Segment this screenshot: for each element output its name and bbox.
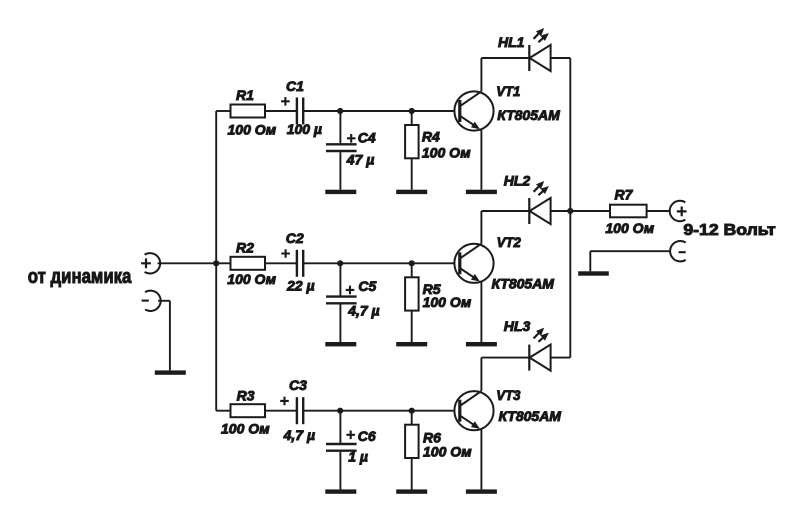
transistor VT2 КТ805АМ (NPN) [454, 234, 554, 291]
capacitor C6 1 µ (shunt, + top) [326, 411, 376, 490]
wire input + to junction [158, 262, 217, 264]
svg-text:9-12 Вольт: 9-12 Вольт [683, 222, 775, 239]
ground [466, 190, 497, 194]
wire emitter [480, 129, 482, 190]
wire [570, 210, 610, 212]
wire collector [481, 211, 529, 244]
svg-text:R1: R1 [236, 87, 254, 103]
wire cap to base [303, 410, 459, 412]
node input junction [213, 260, 219, 266]
ground [325, 190, 356, 194]
svg-text:47 µ: 47 µ [346, 152, 375, 168]
svg-text:C1: C1 [286, 78, 304, 94]
svg-text:HL1: HL1 [498, 34, 525, 50]
ground [325, 342, 356, 346]
svg-text:VT3: VT3 [496, 387, 520, 403]
resistor R2 100 Ом [227, 239, 276, 287]
capacitor C1 100 µ (series, + left) [281, 78, 322, 137]
LED HL1 [498, 28, 551, 71]
node junction R6/base [409, 408, 415, 414]
wire collector [481, 358, 529, 392]
resistor R3 100 Ом [221, 388, 270, 437]
svg-text:R4: R4 [422, 128, 440, 144]
wire emitter [480, 282, 482, 343]
node junction C2/C5 [337, 260, 343, 266]
svg-text:КТ805АМ: КТ805АМ [497, 107, 560, 123]
svg-text:C4: C4 [358, 130, 376, 146]
label "9-12 Вольт" [683, 222, 775, 239]
svg-text:1 µ: 1 µ [348, 448, 368, 464]
ground [325, 489, 356, 493]
wire collector [481, 58, 529, 91]
wire input - to ground [158, 301, 170, 371]
svg-text:КТ805АМ: КТ805АМ [499, 408, 562, 424]
wire bus to R3 [216, 410, 230, 412]
svg-text:C5: C5 [358, 278, 376, 294]
resistor R6 100 Ом [405, 411, 472, 490]
svg-text:HL2: HL2 [504, 173, 531, 189]
svg-text:100 µ: 100 µ [287, 121, 322, 137]
wire LED to bus [551, 357, 571, 359]
svg-text:VT2: VT2 [497, 234, 521, 250]
node junction C3/C6 [337, 408, 343, 414]
svg-text:C3: C3 [289, 377, 307, 393]
resistor R1 100 Ом [228, 87, 277, 137]
svg-text:4,7 µ: 4,7 µ [283, 427, 315, 443]
svg-text:4,7 µ: 4,7 µ [347, 302, 379, 318]
ground [396, 489, 427, 493]
wire output - to ground [590, 251, 670, 271]
capacitor C5 4,7 µ (shunt, + top) [326, 263, 380, 342]
svg-text:100 Ом: 100 Ом [227, 271, 276, 287]
connector X1 input + [141, 253, 160, 273]
svg-text:HL3: HL3 [504, 318, 531, 334]
svg-text:C2: C2 [286, 230, 304, 246]
LED HL3 [504, 318, 551, 371]
svg-text:R7: R7 [615, 187, 634, 203]
svg-text:100 Ом: 100 Ом [423, 294, 472, 310]
svg-text:R3: R3 [237, 388, 255, 404]
wire cap to base [303, 110, 459, 112]
ground [396, 342, 427, 346]
transistor VT1 КТ805АМ (NPN) [454, 83, 560, 131]
node junction C1/C4 [337, 108, 343, 114]
wire cap to base [303, 262, 459, 264]
svg-text:R2: R2 [236, 239, 254, 255]
resistor R4 100 Ом [405, 111, 471, 190]
wire [647, 210, 671, 212]
resistor R7 100 Ом [605, 187, 654, 236]
svg-text:100 Ом: 100 Ом [422, 145, 471, 161]
connector output + [670, 201, 687, 221]
svg-text:КТ805АМ: КТ805АМ [492, 276, 555, 292]
capacitor C3 4,7 µ (series, + left) [280, 377, 315, 443]
wire LED to bus [551, 210, 571, 212]
ground [466, 342, 497, 346]
node junction R5/base [409, 260, 415, 266]
svg-text:100 Ом: 100 Ом [423, 443, 472, 459]
wire bus to R2 [216, 262, 230, 264]
svg-text:100 Ом: 100 Ом [221, 421, 270, 437]
transistor VT3 КТ805АМ (NPN) [454, 387, 561, 430]
ground (supply) [578, 271, 609, 275]
svg-text:100 Ом: 100 Ом [605, 220, 654, 236]
label "от динамика" [28, 266, 132, 288]
wire right bus [569, 58, 571, 358]
capacitor C2 22 µ (series, + left) [281, 230, 314, 294]
ground [466, 489, 497, 493]
connector output - [670, 241, 686, 261]
ground [396, 190, 427, 194]
svg-text:от динамика: от динамика [28, 266, 132, 288]
svg-text:VT1: VT1 [496, 83, 520, 99]
node junction R4/base [409, 108, 415, 114]
connector X1 input - [142, 291, 161, 311]
resistor R5 100 Ом [405, 263, 472, 342]
svg-text:C6: C6 [358, 428, 376, 444]
wire left bus [215, 111, 217, 411]
capacitor C4 47 µ (shunt, + top) [326, 111, 376, 190]
wire [265, 262, 296, 264]
node bus/R7 junction [567, 208, 573, 214]
wire LED to bus [551, 57, 571, 59]
wire [265, 410, 296, 412]
svg-text:100 Ом: 100 Ом [228, 121, 277, 137]
LED HL2 [504, 173, 551, 225]
wire bus to R1 [216, 110, 230, 112]
wire [265, 110, 296, 112]
svg-text:22 µ: 22 µ [286, 278, 315, 294]
wire emitter [480, 429, 482, 490]
ground (input) [155, 370, 186, 374]
